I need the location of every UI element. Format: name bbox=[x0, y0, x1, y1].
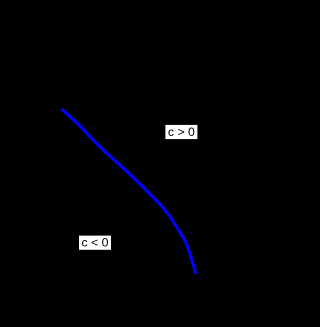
svg-text:c > 0: c > 0 bbox=[168, 125, 195, 139]
label box c > 0 bbox=[165, 125, 197, 139]
solution curve (blue) bbox=[63, 110, 196, 273]
svg-text:c < 0: c < 0 bbox=[81, 236, 108, 250]
label box c < 0 bbox=[79, 236, 111, 250]
